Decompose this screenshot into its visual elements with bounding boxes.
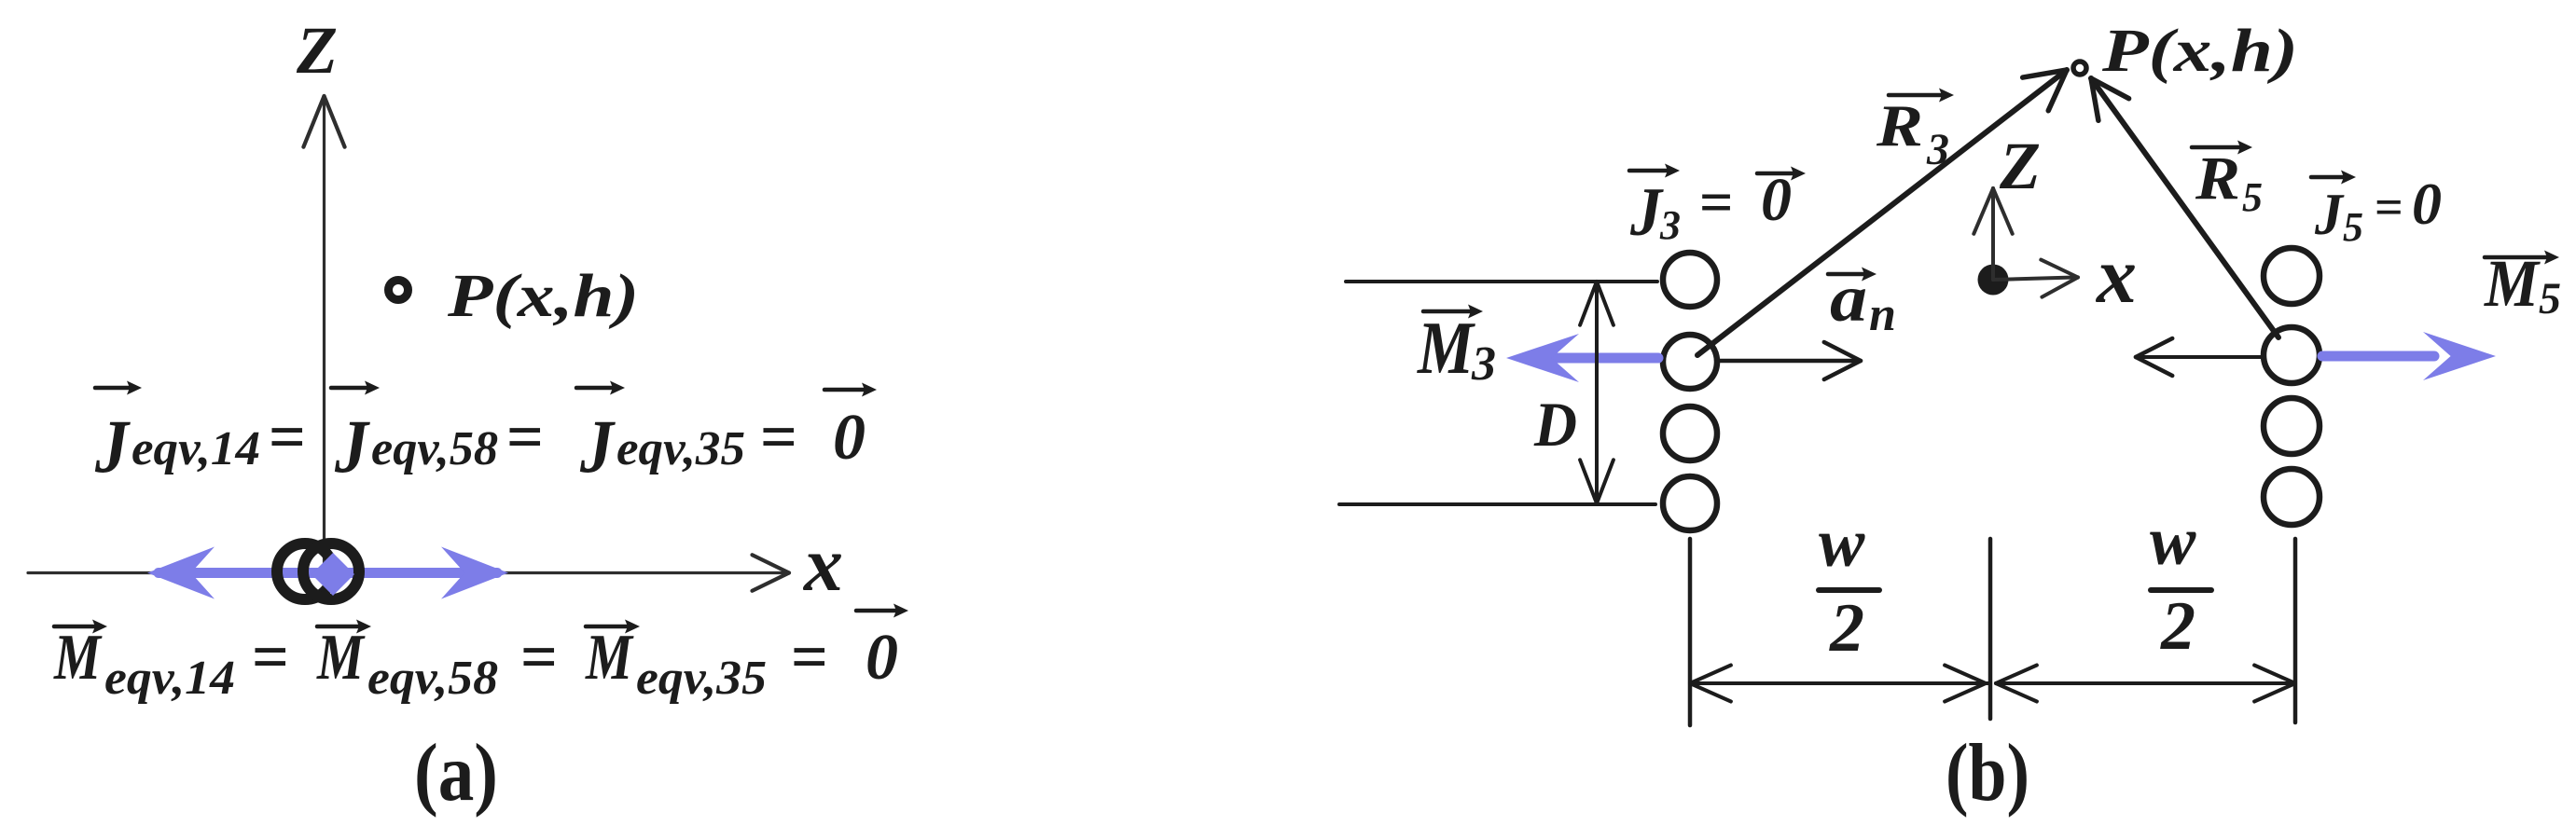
- label P(x,h) of figure (a): [447, 262, 639, 330]
- label a_n (b): [1828, 261, 1896, 341]
- dimension tick center (b): [1988, 539, 1993, 719]
- axis x of figure (a): [28, 555, 789, 591]
- label J5 = 0 (b): [2311, 171, 2442, 251]
- svg-text:=: =: [1699, 169, 1733, 235]
- svg-text:eqv,35: eqv,35: [636, 652, 767, 705]
- point P marker (b): [2073, 62, 2086, 75]
- label P(x,h) of figure (b): [2101, 17, 2298, 85]
- equation M term 1: [53, 622, 235, 705]
- vector M3 blue head (b): [1506, 334, 1579, 382]
- svg-text:J: J: [1629, 174, 1664, 251]
- svg-text:3: 3: [1659, 202, 1681, 248]
- label Z of figure (b): [1999, 129, 2041, 203]
- svg-text:x: x: [2095, 230, 2137, 320]
- label J3 = 0 (b): [1629, 164, 1806, 252]
- svg-text:P(x,h): P(x,h): [2101, 17, 2298, 85]
- equation J vector hat 2: [331, 381, 380, 395]
- equation M equals 2: [520, 622, 558, 694]
- equation J zero hat: [824, 383, 877, 397]
- blue double arrow shaft (a): [159, 568, 497, 578]
- svg-text:P(x,h): P(x,h): [447, 262, 639, 330]
- svg-text:M: M: [1416, 308, 1475, 390]
- svg-text:=: =: [506, 402, 544, 474]
- equation J vector hat 3: [576, 381, 625, 395]
- left coil turn 2 (b): [1663, 335, 1717, 389]
- svg-text:=: =: [791, 622, 828, 694]
- equation J term 2: [334, 404, 498, 488]
- equation M equals 3: [791, 622, 828, 694]
- svg-text:3: 3: [1926, 125, 1949, 174]
- svg-text:M: M: [585, 622, 634, 694]
- equation M zero hat: [856, 604, 908, 618]
- svg-text:(a): (a): [414, 728, 498, 818]
- svg-text:J: J: [2314, 181, 2345, 247]
- svg-text:eqv,35: eqv,35: [616, 422, 745, 475]
- origin dot (b): [1978, 265, 2009, 296]
- dimension D bottom tick (b): [1339, 502, 1655, 506]
- axis x of figure (b): [1993, 260, 2078, 297]
- dimension line w/2 left (b): [1690, 666, 1990, 702]
- left coil turn 3 (b): [1663, 406, 1717, 461]
- svg-text:=: =: [760, 402, 797, 474]
- svg-text:w: w: [2150, 503, 2196, 580]
- equation M equals 1: [252, 622, 289, 694]
- equation J term 1: [94, 404, 260, 488]
- svg-text:=: =: [2375, 179, 2403, 235]
- equation J equals 2: [506, 402, 544, 474]
- equation J equals 3: [760, 402, 797, 474]
- label D (b): [1533, 389, 1577, 460]
- point P marker (a): [389, 281, 409, 300]
- caption (a): [414, 728, 498, 818]
- svg-text:w: w: [1819, 505, 1865, 582]
- svg-text:eqv,58: eqv,58: [371, 422, 498, 475]
- coil turn right at origin (a): [303, 543, 359, 599]
- svg-text:5: 5: [2343, 204, 2363, 250]
- right coil turn 3 (b): [2264, 398, 2320, 454]
- svg-text:J: J: [334, 404, 371, 488]
- svg-text:D: D: [1533, 389, 1577, 460]
- vector M3 blue shaft (b): [1556, 353, 1658, 364]
- svg-text:eqv,14: eqv,14: [132, 422, 260, 475]
- svg-text:J: J: [579, 404, 616, 488]
- label x of figure (a): [802, 521, 843, 608]
- svg-text:=: =: [520, 622, 558, 694]
- equation M term 2: [316, 622, 498, 705]
- right coil turn 2 (b): [2264, 327, 2320, 383]
- svg-text:0: 0: [2412, 171, 2442, 237]
- label R3 (b): [1876, 89, 1954, 175]
- svg-text:0: 0: [833, 402, 866, 474]
- svg-text:eqv,14: eqv,14: [104, 652, 235, 705]
- svg-text:Z: Z: [1999, 129, 2041, 203]
- equation M zero: [866, 622, 898, 694]
- black arrow left of right coil (b): [2136, 338, 2261, 376]
- svg-text:M: M: [2484, 246, 2541, 321]
- dimension tick left (b): [1688, 539, 1693, 725]
- svg-text:5: 5: [2242, 174, 2263, 220]
- label w/2 left (b): [1819, 505, 1879, 667]
- label x of figure (b): [2095, 230, 2137, 320]
- svg-text:(b): (b): [1946, 728, 2029, 818]
- dimension line w/2 right (b): [1996, 666, 2295, 702]
- label M5 (b): [2484, 246, 2561, 323]
- equation J zero: [833, 402, 866, 474]
- label R5 (b): [2192, 141, 2263, 221]
- axis Z of figure (b): [1974, 188, 2012, 280]
- svg-text:x: x: [802, 521, 843, 608]
- equation M vector hat 2: [317, 620, 371, 634]
- right coil turn 4 (b): [2264, 469, 2320, 525]
- blue arrowhead left (a): [147, 547, 215, 599]
- svg-text:M: M: [53, 622, 103, 694]
- svg-text:n: n: [1869, 288, 1896, 341]
- dimension D vertical line (b): [1580, 282, 1613, 503]
- svg-text:eqv,58: eqv,58: [367, 652, 498, 705]
- blue diamond at origin (a): [312, 553, 354, 596]
- svg-text:a: a: [1830, 261, 1867, 336]
- svg-text:R: R: [2195, 144, 2240, 213]
- svg-text:0: 0: [1761, 166, 1792, 234]
- vector M5 blue shaft (b): [2322, 351, 2434, 362]
- dimension tick right (b): [2293, 539, 2298, 722]
- right coil turn 1 (b): [2264, 248, 2320, 304]
- equation J term 3: [579, 404, 745, 488]
- svg-text:=: =: [252, 622, 289, 694]
- equation M vector hat 3: [586, 620, 640, 634]
- coil turn left at origin (a): [277, 543, 333, 599]
- blue arrowhead right (a): [441, 547, 508, 599]
- dimension D top tick (b): [1346, 280, 1657, 283]
- equation M vector hat 1: [54, 620, 107, 634]
- vector R3 arrow (b): [1697, 70, 2067, 355]
- vector M5 blue head (b): [2423, 332, 2496, 380]
- caption (b): [1946, 728, 2029, 818]
- vector a_n arrow (b): [1719, 342, 1861, 379]
- left coil turn 1 (b): [1663, 253, 1717, 307]
- svg-text:2: 2: [2160, 588, 2195, 665]
- svg-text:Z: Z: [296, 13, 338, 88]
- equation J vector hat 1: [95, 381, 142, 395]
- vector R5 arrow (b): [2091, 78, 2278, 337]
- svg-text:0: 0: [866, 622, 898, 694]
- svg-text:M: M: [316, 622, 366, 694]
- label M3 (b): [1416, 305, 1496, 392]
- svg-text:5: 5: [2539, 274, 2561, 323]
- equation J equals 1: [269, 402, 306, 474]
- svg-text:R: R: [1876, 92, 1923, 158]
- svg-text:3: 3: [1471, 337, 1496, 391]
- svg-text:J: J: [94, 404, 132, 488]
- svg-text:2: 2: [1829, 590, 1864, 667]
- label w/2 right (b): [2150, 503, 2211, 665]
- axis Z of figure (a): [303, 96, 344, 571]
- svg-text:=: =: [269, 402, 306, 474]
- equation M term 3: [585, 622, 767, 705]
- label Z of figure (a): [296, 13, 338, 88]
- left coil turn 4 (b): [1663, 476, 1717, 530]
